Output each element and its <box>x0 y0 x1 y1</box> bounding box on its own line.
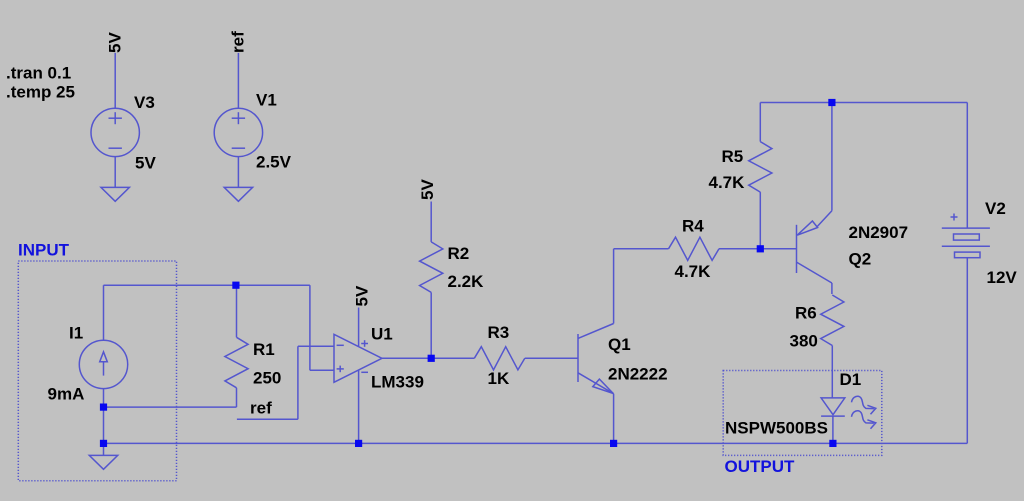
svg-text:4.7K: 4.7K <box>675 262 712 281</box>
svg-text:250: 250 <box>253 369 281 388</box>
svg-text:R4: R4 <box>682 217 704 236</box>
svg-text:I1: I1 <box>69 324 83 343</box>
svg-text:NSPW500BS: NSPW500BS <box>725 419 828 438</box>
svg-text:2N2907: 2N2907 <box>849 223 909 242</box>
svg-text:5V: 5V <box>353 285 372 306</box>
svg-text:.tran 0.1: .tran 0.1 <box>6 64 71 83</box>
svg-text:U1: U1 <box>371 325 393 344</box>
svg-text:OUTPUT: OUTPUT <box>725 457 796 476</box>
svg-text:.temp 25: .temp 25 <box>6 83 75 102</box>
svg-text:Q2: Q2 <box>849 250 872 269</box>
svg-text:5V: 5V <box>106 32 125 53</box>
svg-text:LM339: LM339 <box>371 373 424 392</box>
svg-text:5V: 5V <box>418 179 437 200</box>
svg-text:INPUT: INPUT <box>18 241 70 260</box>
svg-text:1K: 1K <box>488 369 510 388</box>
svg-text:9mA: 9mA <box>48 385 85 404</box>
svg-text:D1: D1 <box>840 370 862 389</box>
svg-text:2.2K: 2.2K <box>448 272 485 291</box>
svg-text:5V: 5V <box>135 154 156 173</box>
svg-text:2N2222: 2N2222 <box>608 365 668 384</box>
svg-text:V3: V3 <box>134 93 155 112</box>
svg-text:ref: ref <box>229 31 248 53</box>
svg-text:380: 380 <box>790 332 818 351</box>
svg-text:R2: R2 <box>448 244 470 263</box>
svg-text:R5: R5 <box>722 147 744 166</box>
svg-text:V2: V2 <box>985 199 1006 218</box>
svg-text:4.7K: 4.7K <box>709 173 746 192</box>
svg-text:R1: R1 <box>253 340 275 359</box>
svg-text:12V: 12V <box>987 268 1018 287</box>
svg-text:R3: R3 <box>488 323 510 342</box>
svg-text:ref: ref <box>250 399 272 418</box>
svg-text:Q1: Q1 <box>608 335 631 354</box>
svg-text:R6: R6 <box>795 304 817 323</box>
svg-text:2.5V: 2.5V <box>256 153 292 172</box>
svg-text:V1: V1 <box>256 91 277 110</box>
